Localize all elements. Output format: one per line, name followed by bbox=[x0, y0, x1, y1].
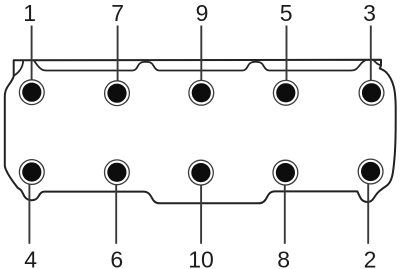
bolt 1 bbox=[19, 80, 44, 105]
svg-text:9: 9 bbox=[196, 0, 209, 26]
cylinder head outline bbox=[5, 60, 396, 204]
svg-text:5: 5 bbox=[280, 0, 293, 26]
leader 9 bbox=[200, 26, 202, 81]
svg-text:8: 8 bbox=[277, 247, 290, 269]
svg-text:6: 6 bbox=[110, 247, 123, 269]
leader 5 bbox=[286, 26, 288, 81]
top-right tab hypotenuse bbox=[374, 60, 381, 65]
svg-text:10: 10 bbox=[188, 247, 214, 269]
leader 2 bbox=[367, 184, 369, 244]
bolt 10 bbox=[189, 160, 214, 185]
bolt 8 bbox=[273, 160, 298, 185]
svg-text:7: 7 bbox=[111, 0, 124, 26]
bolt 4 bbox=[19, 160, 44, 185]
leader 4 bbox=[28, 185, 30, 244]
inner top line with humps bbox=[34, 60, 366, 70]
bolt 6 bbox=[105, 160, 130, 185]
bolt 9 bbox=[189, 80, 214, 105]
svg-text:3: 3 bbox=[363, 0, 376, 26]
leader 10 bbox=[200, 185, 202, 244]
svg-text:4: 4 bbox=[24, 247, 37, 269]
svg-text:1: 1 bbox=[23, 0, 36, 26]
bolt 2 bbox=[358, 159, 383, 184]
top-left corner curl bbox=[14, 60, 24, 76]
leader 7 bbox=[117, 26, 119, 81]
bolt 5 bbox=[273, 80, 298, 105]
bolt 3 bbox=[359, 80, 384, 105]
svg-text:2: 2 bbox=[364, 247, 377, 269]
leader 1 bbox=[31, 26, 33, 80]
leader 8 bbox=[284, 185, 286, 244]
bolt 7 bbox=[105, 81, 130, 106]
leader 6 bbox=[115, 185, 117, 244]
leader 3 bbox=[370, 26, 372, 81]
